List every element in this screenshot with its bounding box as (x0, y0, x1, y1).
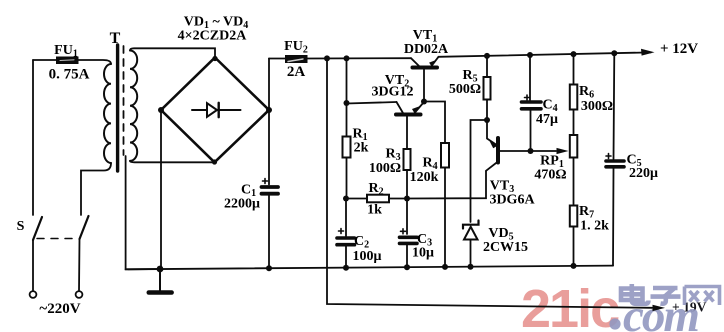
watermark dot of .com (609, 318, 620, 329)
capacitor C2 plates (337, 238, 355, 245)
junction: R1 branch on top rail (344, 55, 350, 61)
svg-text:T: T (110, 30, 121, 47)
top rail: FU2 to VT1 collector (308, 57, 412, 59)
svg-text:FU1: FU1 (54, 43, 78, 60)
svg-text:~220V: ~220V (39, 301, 80, 317)
capacitor C3 plates (400, 237, 418, 243)
svg-text:100Ω: 100Ω (369, 161, 401, 176)
transistor VT2 collector diagonal (397, 102, 404, 113)
svg-text:100μ: 100μ (353, 249, 382, 264)
junction: C3 bottom rail (404, 264, 410, 270)
wire: C4 to wiper node (530, 111, 532, 152)
svg-text:10μ: 10μ (412, 246, 434, 261)
resistor R2 (367, 195, 389, 203)
resistor R1 (343, 137, 351, 158)
svg-text:FU2: FU2 (284, 39, 308, 56)
capacitor C3 plus sign (401, 229, 406, 234)
svg-text:4×2CZD2A: 4×2CZD2A (178, 29, 248, 44)
junction: bridge bottom vertex (212, 159, 217, 164)
junction: ground node (157, 266, 164, 273)
zener diode VD5 triangle (464, 227, 478, 240)
svg-text:2k: 2k (354, 141, 369, 156)
main schematic lineart (30, 45, 665, 311)
svg-text:47μ: 47μ (536, 112, 558, 127)
potentiometer RP1 (570, 135, 578, 158)
wire: R7 to bottom rail (573, 227, 575, 266)
resistor R6 lead from rail (573, 54, 575, 84)
fuse FU2 (285, 55, 308, 63)
capacitor C4 lead from rail (529, 55, 531, 100)
wire: R1 rail drop (346, 59, 348, 137)
svg-text:+ 12V: + 12V (660, 41, 698, 57)
junction: R6 on top rail (571, 51, 577, 57)
wire: C2 drop (345, 199, 347, 237)
transformer T secondary winding (130, 51, 137, 161)
terminal circle right (~220V) (76, 291, 83, 298)
watermark 子 glyph (651, 288, 681, 304)
junction: VD5 bottom rail (468, 264, 474, 270)
capacitor C4 plus sign (525, 95, 530, 100)
transistor VT2 base bar (396, 113, 421, 117)
ground (159, 269, 161, 291)
capacitor C1 plus sign (263, 179, 268, 184)
wire: switch right to terminal (78, 239, 81, 291)
capacitor C5 lead from rail (613, 53, 616, 159)
top rail: corner to FU2 (269, 58, 285, 60)
junction: R1/R2/C2 node (343, 196, 349, 202)
svg-text:300Ω: 300Ω (581, 99, 613, 114)
watermark 21ic (521, 279, 619, 332)
wire: R4 bottom to bottom rail (crosses mid line) (444, 168, 446, 267)
junction: C1 bottom rail (266, 265, 272, 271)
resistor R5 lead from rail (486, 56, 488, 77)
junction: bridge right vertex (266, 107, 272, 113)
wire: C3 drop (406, 199, 408, 235)
RP1 wiper arrowhead (557, 148, 569, 154)
transformer T primary winding (104, 64, 111, 163)
svg-text:500Ω: 500Ω (449, 82, 481, 97)
junction: +19V takeoff on top rail (324, 55, 330, 61)
resistor R5 (484, 77, 491, 100)
junction: VT1 base / VT2 emitter / R4 node (421, 99, 427, 105)
junction: bridge left vertex (158, 107, 164, 113)
junction: bridge top vertex (212, 56, 217, 61)
junction: R4 bottom rail (442, 264, 448, 270)
transistor VT1 collector diagonal (411, 58, 419, 66)
junction: R7 bottom rail (571, 263, 577, 269)
svg-text:DD02A: DD02A (404, 42, 449, 57)
wire: FU1 to transformer primary top (79, 60, 112, 64)
transformer T core solid line (116, 45, 119, 171)
wire: VD5 to bottom rail (470, 240, 472, 267)
transistor VT1 base bar (413, 66, 438, 70)
wire: C1 to bottom rail (268, 196, 270, 269)
svg-text:R2: R2 (368, 181, 383, 198)
junction: C4 on top rail (527, 52, 533, 58)
transistor VT3 emitter diagonal (486, 162, 498, 171)
switch S right blade (80, 216, 89, 239)
resistor R6 (570, 85, 578, 110)
wire: bridge left vertex down to ground rail (crosses AC wire) (160, 110, 162, 269)
junction: VT2 collector node (344, 100, 350, 106)
svg-text:1k: 1k (367, 203, 382, 218)
bridge diode triangle (207, 103, 217, 117)
zener diode VD5 cathode bar with wings (463, 221, 479, 229)
bridge diode cathode bar (217, 103, 219, 117)
wire: VT2 collector horizontal from R1 node (347, 102, 397, 104)
wire: R2 right lead (389, 198, 407, 200)
wire: C2 to bottom rail (345, 247, 347, 268)
wire: node right then down to R4 (424, 102, 445, 144)
fuse FU1 (56, 57, 79, 65)
svg-text:470Ω: 470Ω (534, 168, 566, 183)
resistor R7 (570, 206, 578, 227)
wire: C5 to bottom rail end (612, 169, 615, 266)
wire: switch left to terminal (32, 240, 34, 291)
wire: mains left vertical from FU1 corner down to switch S (32, 60, 34, 215)
watermark 电 glyph (621, 284, 649, 304)
wire: secondary bottom to bridge bottom vertex (130, 161, 215, 162)
bridge rectifier VD1-VD4 diamond (161, 58, 269, 163)
transistor VT3 collector lead with arrow (487, 120, 498, 146)
svg-text:S: S (17, 219, 25, 234)
svg-text:2A: 2A (287, 64, 306, 80)
bottom rail (126, 266, 613, 270)
junction: C4 bottom node on wiper line (528, 148, 534, 154)
resistor R3 (404, 149, 411, 170)
wire: R6 to RP1 (573, 110, 575, 136)
capacitor C5 plates (606, 161, 624, 167)
wire: VT2 base down to R3 (406, 117, 408, 150)
capacitor C4 plates (522, 102, 542, 109)
wire: bridge right vertex up to top rail (268, 59, 270, 111)
watermark 网 glyph (685, 287, 720, 306)
svg-text:0. 75A: 0. 75A (49, 67, 90, 83)
transformer T shield dashed line (123, 46, 125, 155)
svg-text:120k: 120k (410, 170, 439, 185)
terminal circle left (~220V) (30, 291, 37, 298)
resistor R4 (441, 143, 449, 168)
transistor VT1 emitter diagonal with arrow (432, 57, 439, 66)
junction: R3 bottom / R2 / C3 node (404, 196, 410, 202)
wire: C3 to bottom rail (406, 245, 408, 267)
wire: R3 bottom to node (406, 170, 408, 199)
wire: R1 bottom to R2 node (346, 158, 348, 199)
svg-text:3DG6A: 3DG6A (489, 193, 535, 208)
junction: C2 bottom rail (343, 265, 349, 271)
top rail: VT1 emitter to +12V arrow (439, 52, 652, 56)
wire: VT3 base to RP1 wiper (500, 150, 556, 152)
svg-text:1. 2k: 1. 2k (580, 219, 609, 234)
bridge diode symbol lead line (192, 109, 241, 111)
junction: R5 on top rail (484, 53, 490, 59)
wire: secondary top to bridge top vertex (130, 48, 215, 57)
svg-text:2200μ: 2200μ (224, 197, 260, 212)
wire: +19V vertical drop (crosses bottom rail) (327, 59, 652, 308)
svg-text:21ic: 21ic (521, 279, 619, 332)
wire: R5 bottom to node (486, 100, 488, 121)
svg-text:3DG12: 3DG12 (372, 85, 414, 100)
wire: transformer primary bottom to switch right (81, 163, 111, 215)
svg-text:220μ: 220μ (629, 166, 658, 181)
transistor VT2 emitter diagonal with arrow (415, 103, 424, 114)
wire: mid line from R3 node to VT3 emitter corner (crosses R4, VD5) (407, 171, 486, 199)
capacitor C5 plus sign (606, 154, 611, 159)
junction: R5/VD5/VT3-collector node (484, 117, 490, 123)
svg-text:2CW15: 2CW15 (483, 240, 528, 255)
wire: node left and down to VD5 (crosses mid line) (471, 120, 488, 222)
wire: FU1 left horizontal (33, 59, 56, 61)
capacitor C1 plates (262, 187, 279, 194)
transistor VT3 base bar (496, 138, 500, 163)
+12V arrowhead (641, 49, 655, 56)
wire: VT1 base down to node (423, 70, 425, 102)
wire: R2 left lead (346, 198, 367, 200)
junction: C5 on top rail (611, 50, 617, 56)
capacitor C2 plus sign (339, 229, 344, 234)
wire: shield to ground rail (126, 156, 160, 269)
switch S link dashes (37, 238, 78, 240)
switch S left blade (33, 217, 42, 240)
wire: RP1 to R7 (573, 158, 575, 206)
wire: bridge right vertex down to C1 (268, 110, 270, 185)
+19V arrowhead (653, 305, 666, 311)
